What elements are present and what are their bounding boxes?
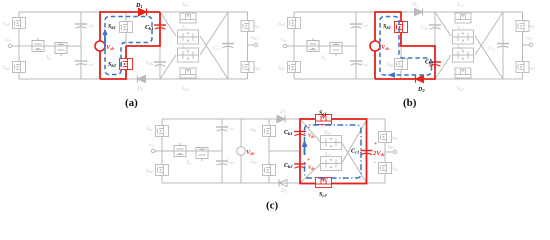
svg-text:Sb1: Sb1 <box>250 127 257 133</box>
svg-text:Ca1: Ca1 <box>226 125 234 131</box>
svg-text:Sa2: Sa2 <box>146 168 153 174</box>
svg-text:(a): (a) <box>125 97 138 109</box>
svg-text:Sb2: Sb2 <box>108 62 117 68</box>
svg-text:Xa: Xa <box>185 160 191 166</box>
svg-text:Sb2: Sb2 <box>387 62 394 68</box>
svg-text:-: - <box>306 142 308 148</box>
svg-text:Sb1: Sb1 <box>383 24 391 30</box>
svg-text:Sc2: Sc2 <box>319 192 327 198</box>
svg-text:Vdc: Vdc <box>106 44 115 51</box>
svg-text:Sa1: Sa1 <box>146 126 153 132</box>
svg-text:Cb1: Cb1 <box>421 25 429 31</box>
svg-text:Xb1: Xb1 <box>323 130 331 136</box>
svg-text:D1: D1 <box>411 2 418 8</box>
svg-text:+: + <box>374 141 377 147</box>
svg-text:Vdc: Vdc <box>381 44 390 51</box>
svg-text:Ca2: Ca2 <box>226 159 234 165</box>
svg-text:Cb2: Cb2 <box>425 60 434 66</box>
svg-text:D2: D2 <box>280 188 287 194</box>
svg-text:2Vdc: 2Vdc <box>372 150 385 157</box>
svg-text:Vdc: Vdc <box>308 166 315 171</box>
svg-text:Vdc: Vdc <box>246 149 255 156</box>
svg-text:Cc1: Cc1 <box>351 149 359 155</box>
svg-text:Cb1: Cb1 <box>145 25 154 31</box>
svg-text:D1: D1 <box>279 109 286 115</box>
svg-text:Vdc: Vdc <box>308 134 315 139</box>
svg-text:D2: D2 <box>417 87 425 93</box>
svg-text:Cb2: Cb2 <box>284 163 293 169</box>
svg-text:Sb1: Sb1 <box>108 24 116 30</box>
svg-text:ub+: ub+ <box>388 144 396 150</box>
svg-text:(b): (b) <box>403 97 417 109</box>
svg-text:-: - <box>374 160 376 166</box>
svg-text:Sc1: Sc1 <box>319 111 327 117</box>
svg-text:D2: D2 <box>136 86 143 92</box>
svg-text:+: + <box>307 125 310 131</box>
svg-text:-: - <box>306 176 308 182</box>
svg-text:D1: D1 <box>135 3 143 9</box>
svg-text:Cb1: Cb1 <box>284 130 293 136</box>
svg-text:Cb2: Cb2 <box>146 60 154 66</box>
svg-text:(c): (c) <box>266 200 279 212</box>
svg-text:Sd1: Sd1 <box>391 135 398 141</box>
svg-text:Xb2: Xb2 <box>323 152 331 158</box>
svg-text:ua: ua <box>149 142 154 148</box>
svg-text:Sb2: Sb2 <box>250 159 257 165</box>
svg-text:Sd2: Sd2 <box>391 166 398 172</box>
svg-text:+: + <box>307 157 310 163</box>
